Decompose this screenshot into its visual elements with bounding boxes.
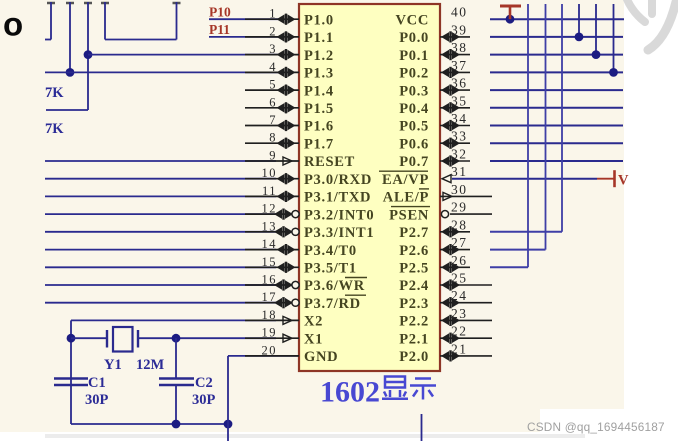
pin 28 bidirectional arrow (441, 226, 460, 237)
pin 16 stub (245, 284, 299, 286)
svg-text:4: 4 (269, 60, 277, 74)
svg-text:P2.0: P2.0 (399, 349, 429, 365)
junction on P1.2 net (84, 50, 93, 59)
svg-text:14: 14 (262, 237, 278, 251)
svg-text:7K: 7K (45, 85, 64, 101)
svg-text:3: 3 (269, 42, 277, 56)
pin 10 stub (245, 178, 299, 180)
pin 17 inversion circle (292, 299, 299, 306)
svg-text:P2.3: P2.3 (399, 296, 429, 312)
svg-text:P3.4/T0: P3.4/T0 (304, 243, 357, 259)
pin 32 stub (440, 160, 470, 162)
pin 27 bidirectional arrow (441, 244, 460, 255)
chip caption hanzi 显 (382, 377, 408, 399)
wire: P0.7 bus horizontal (490, 160, 623, 162)
junction P0.0 (575, 33, 584, 42)
svg-text:39: 39 (451, 22, 468, 37)
wire: P0.2 bus horizontal (490, 71, 623, 73)
wire: bus to pin 11 (P3.1) (45, 195, 276, 197)
pin 29 stub (450, 213, 492, 215)
svg-text:C2: C2 (195, 375, 213, 391)
pin 6 stub (245, 107, 299, 109)
wire: P0.4 bus horizontal (490, 107, 623, 109)
pin 1 bidirectional arrow (277, 14, 296, 25)
pin 39 stub (440, 36, 470, 38)
wire: P0.0 bus horizontal (490, 36, 623, 38)
svg-text:23: 23 (451, 306, 468, 321)
svg-text:11: 11 (262, 184, 277, 198)
pin 19 input arrow (283, 334, 292, 342)
svg-text:9: 9 (269, 149, 277, 163)
wire: VCC rail horizontal (490, 18, 624, 20)
svg-text:40: 40 (451, 5, 468, 20)
wire: P2.5 horizontal (490, 266, 528, 268)
junction C2-rail (172, 420, 181, 429)
wire: bus to pin 17 (P3.7) (45, 302, 276, 304)
overline P of ALE/P (419, 188, 429, 190)
svg-text:P1.4: P1.4 (304, 83, 334, 99)
pin 13 inversion circle (292, 228, 299, 235)
pin 15 bidirectional arrow (277, 262, 296, 273)
overline PSEN (391, 206, 430, 208)
pin 13 stub (245, 231, 299, 233)
svg-text:29: 29 (451, 200, 468, 215)
pin 14 stub (245, 249, 299, 251)
svg-text:P2.1: P2.1 (399, 331, 429, 347)
pin 18 stub (245, 319, 299, 321)
pin 2 stub (245, 36, 299, 38)
svg-text:P3.1/TXD: P3.1/TXD (304, 190, 371, 206)
wire: X2 net horizontal (71, 319, 276, 321)
wire: P2.6 horizontal (490, 249, 546, 251)
svg-text:VCC: VCC (395, 12, 429, 28)
pin 8 stub (245, 142, 299, 144)
wire: bus to pin 14 (P3.4) (45, 249, 276, 251)
pin 18 input arrow (283, 316, 292, 324)
svg-text:6: 6 (269, 95, 277, 109)
svg-text:30P: 30P (192, 392, 216, 408)
wire: stub corner to left (45, 39, 51, 41)
pin 16 inversion circle (292, 281, 299, 288)
pin 20 stub (245, 355, 299, 357)
pin 17 stub (245, 302, 299, 304)
wire: P2.5 vertical (527, 4, 529, 267)
pin 5 stub (245, 89, 299, 91)
svg-text:8: 8 (269, 131, 277, 145)
pin 13 bidirectional arrow (274, 226, 293, 237)
wire: P2.7 vertical (561, 4, 563, 232)
pin 9 stub (245, 160, 299, 162)
capacitor C2 (159, 379, 194, 386)
svg-text:17: 17 (262, 290, 278, 304)
pin 23 bidirectional arrow (441, 315, 460, 326)
junction C2 branch (172, 334, 181, 343)
svg-text:21: 21 (451, 341, 468, 356)
pin 6 bidirectional arrow (277, 102, 296, 113)
svg-text:V: V (618, 173, 629, 189)
svg-text:P0.6: P0.6 (399, 136, 429, 152)
wire: bottom leg to 7K resistor (46, 109, 88, 111)
wire: pull-up net to pin 4 (P1.3) (45, 71, 282, 73)
svg-text:31: 31 (451, 164, 468, 179)
pin 7 stub (245, 125, 299, 127)
svg-text:P3.6/WR: P3.6/WR (304, 278, 365, 294)
svg-text:PSEN: PSEN (389, 207, 429, 223)
svg-text:30: 30 (451, 182, 468, 197)
pin 1 stub (245, 18, 299, 20)
pin 29 inversion circle (441, 211, 448, 218)
pin 26 bidirectional arrow (441, 262, 460, 273)
pin 33 stub (440, 142, 470, 144)
pin 11 stub (245, 195, 299, 197)
pin 38 stub (440, 54, 470, 56)
wire: U left leg (104, 2, 106, 40)
pin 35 stub (440, 107, 470, 109)
pin 8 bidirectional arrow (277, 138, 296, 149)
svg-text:P1.0: P1.0 (304, 12, 334, 28)
pin 24 stub (440, 302, 492, 304)
svg-text:28: 28 (451, 217, 468, 232)
svg-text:36: 36 (451, 76, 468, 91)
wire: pull-up net to pin 3 (P1.2) (88, 54, 282, 56)
wire: bus to pin 15 (P3.5) (45, 266, 276, 268)
pin 22 bidirectional arrow (441, 333, 460, 344)
pin 38 bidirectional arrow (441, 49, 460, 60)
wire: P2.6 vertical (545, 4, 547, 250)
pin 31 input arrow (442, 175, 451, 183)
svg-text:P0.5: P0.5 (399, 119, 429, 135)
svg-text:P2.5: P2.5 (399, 261, 429, 277)
watermark stroke 2 (648, 0, 656, 14)
wire: X2 net vertical / C1 branch (70, 320, 72, 424)
svg-text:EA/VP: EA/VP (382, 172, 429, 188)
pin 25 bidirectional arrow (441, 279, 460, 290)
svg-text:P3.0/RXD: P3.0/RXD (304, 172, 372, 188)
wire: rail continues down (227, 424, 229, 441)
wire: net P10 to pin 1 (209, 18, 282, 20)
pin 17 bidirectional arrow (274, 297, 293, 308)
wire: ground rail (71, 423, 228, 425)
overline RD (pin17 label) (345, 294, 366, 296)
wire: vertical bus to P0.2 (613, 4, 615, 72)
svg-text:30P: 30P (85, 392, 109, 408)
pin 37 stub (440, 71, 470, 73)
pin 9 input arrow (283, 157, 292, 165)
pin 5 bidirectional arrow (277, 85, 296, 96)
svg-text:P3.2/INT0: P3.2/INT0 (304, 207, 374, 223)
pin 15 stub (245, 266, 299, 268)
pin 39 bidirectional arrow (441, 31, 460, 42)
pin 32 bidirectional arrow (441, 155, 460, 166)
resistor stub tick 1 (47, 2, 55, 5)
pin 28 stub (440, 231, 470, 233)
svg-text:1602: 1602 (320, 376, 380, 409)
pin 21 bidirectional arrow (441, 350, 460, 361)
pin 14 bidirectional arrow (277, 244, 296, 255)
pin 33 bidirectional arrow (441, 138, 460, 149)
svg-text:10: 10 (262, 166, 278, 180)
svg-text:32: 32 (451, 147, 468, 162)
pin 35 bidirectional arrow (441, 102, 460, 113)
svg-text:P2.4: P2.4 (399, 278, 429, 294)
junction VCC (506, 15, 515, 24)
pin 24 bidirectional arrow (441, 297, 460, 308)
pin 12 inversion circle (292, 211, 299, 218)
watermark stroke 1 (626, 0, 645, 22)
junction P0.1 (592, 50, 601, 59)
pin 4 bidirectional arrow (277, 67, 296, 78)
overline EA/VP (379, 170, 428, 172)
svg-text:P2.7: P2.7 (399, 225, 429, 241)
svg-text:18: 18 (262, 308, 278, 322)
pin 23 stub (440, 319, 492, 321)
wire: bus to pin 16 (P3.6) (45, 284, 276, 286)
svg-text:P2.6: P2.6 (399, 243, 429, 259)
svg-text:X2: X2 (304, 314, 323, 330)
pin 30 output arrow (443, 192, 452, 200)
resistor stub tick 3 (84, 2, 92, 5)
wire: EA pin horizontal (452, 178, 597, 180)
svg-text:25: 25 (451, 271, 468, 286)
svg-text:o: o (3, 6, 23, 43)
svg-text:P1.1: P1.1 (304, 30, 334, 46)
power tie on EA (red) (597, 170, 615, 187)
svg-text:22: 22 (451, 324, 468, 339)
svg-text:X1: X1 (304, 331, 323, 347)
svg-text:2: 2 (269, 24, 277, 38)
svg-text:P0.2: P0.2 (399, 66, 429, 82)
wire: C2 top lead (175, 338, 177, 378)
svg-text:P3.7/RD: P3.7/RD (304, 296, 361, 312)
pin 16 bidirectional arrow (274, 279, 293, 290)
wire: U bottom (105, 39, 177, 41)
U1 right pin name labels (382, 12, 429, 365)
power symbol VCC (red T) (500, 6, 521, 19)
svg-text:15: 15 (262, 255, 278, 269)
chip caption hanzi 示 (410, 379, 436, 400)
wire: P0.3 bus horizontal (490, 89, 623, 91)
overline WR (pin16 label) (345, 277, 367, 279)
wire: vertical to P1.3 net (69, 2, 71, 72)
pin 26 stub (440, 266, 470, 268)
svg-text:P0.0: P0.0 (399, 30, 429, 46)
wire: P0.5 bus horizontal (490, 125, 623, 127)
resistor stub tick 4 (101, 2, 109, 5)
wire: vertical bus to P0.0 (578, 4, 580, 37)
wire: bus to pin 12 (P3.2) (45, 213, 276, 215)
svg-text:P1.5: P1.5 (304, 101, 334, 117)
svg-text:ALE/P: ALE/P (383, 190, 429, 206)
pin 34 bidirectional arrow (441, 120, 460, 131)
svg-text:Y1: Y1 (104, 357, 122, 373)
svg-text:26: 26 (451, 253, 468, 268)
svg-text:P2.2: P2.2 (399, 314, 429, 330)
wire: bus to pin 13 (P3.3) (45, 231, 276, 233)
junction GND-rail (224, 420, 233, 429)
junction crystal left (67, 334, 76, 343)
pin 12 stub (245, 213, 299, 215)
svg-text:P1.6: P1.6 (304, 119, 334, 135)
wire: vertical through P1.2 net (87, 2, 89, 110)
pin 36 stub (440, 89, 470, 91)
pin 36 bidirectional arrow (441, 85, 460, 96)
svg-text:P0.3: P0.3 (399, 83, 429, 99)
crystal Y1 (107, 327, 138, 352)
pin 4 stub (245, 71, 299, 73)
svg-text:P3.5/T1: P3.5/T1 (304, 261, 357, 277)
resistor stub tick 5 (173, 2, 181, 5)
svg-text:27: 27 (451, 235, 468, 250)
svg-text:20: 20 (262, 343, 278, 357)
svg-text:P1.3: P1.3 (304, 66, 334, 82)
svg-text:GND: GND (304, 349, 338, 365)
pin 37 bidirectional arrow (441, 67, 460, 78)
wire: U right leg (176, 2, 178, 40)
capacitor C1 (54, 379, 88, 386)
svg-text:P1.7: P1.7 (304, 136, 334, 152)
op-amp U1: 8051 MCU body (299, 4, 440, 371)
wire: GND pin vertical (227, 356, 229, 424)
wire: C2 bottom lead (175, 385, 177, 424)
wire: bus to pin 10 (P3.0) (45, 178, 276, 180)
bottom gray bar (45, 434, 585, 438)
svg-text:CSDN @qq_1694456187: CSDN @qq_1694456187 (527, 420, 665, 434)
pin 7 bidirectional arrow (277, 120, 296, 131)
svg-text:5: 5 (269, 78, 277, 92)
svg-text:P3.3/INT1: P3.3/INT1 (304, 225, 374, 241)
svg-text:7K: 7K (45, 121, 64, 137)
svg-text:16: 16 (262, 273, 278, 287)
wire: P2.7 horizontal (490, 231, 562, 233)
pin 21 stub (440, 355, 492, 357)
svg-text:P1.2: P1.2 (304, 48, 334, 64)
U1 left pin name labels (304, 12, 374, 365)
svg-text:12: 12 (262, 202, 278, 216)
wire: crystal right lead to X1 (138, 337, 276, 339)
pin 27 stub (440, 249, 470, 251)
pin 10 bidirectional arrow (277, 173, 296, 184)
svg-text:35: 35 (451, 93, 468, 108)
pin 3 bidirectional arrow (277, 49, 296, 60)
svg-text:37: 37 (451, 58, 468, 73)
watermark stroke 3 (648, 2, 676, 50)
wire: vertical bus to P0.1 (595, 4, 597, 55)
svg-text:1: 1 (269, 7, 277, 21)
pin 11 bidirectional arrow (277, 191, 296, 202)
pin 3 stub (245, 54, 299, 56)
svg-text:P10: P10 (209, 5, 231, 20)
wire: P0.6 bus horizontal (490, 142, 623, 144)
svg-text:P0.7: P0.7 (399, 154, 429, 170)
svg-text:P0.4: P0.4 (399, 101, 429, 117)
pin 22 stub (440, 337, 492, 339)
pin 30 stub (440, 195, 492, 197)
svg-text:34: 34 (451, 111, 468, 126)
svg-text:P0.1: P0.1 (399, 48, 429, 64)
wire: bus to pin 9 (RESET) (45, 160, 276, 162)
wire: stub below chip (421, 414, 423, 441)
junction P0.2 (609, 68, 618, 77)
wire: vertical stub x=51 (50, 2, 52, 40)
wire: net P11 to pin 2 (209, 36, 282, 38)
svg-text:RESET: RESET (304, 154, 355, 170)
wire: crystal left lead (71, 337, 106, 339)
pin 25 stub (440, 284, 492, 286)
svg-text:12M: 12M (136, 357, 165, 373)
resistor stub tick 2 (66, 2, 74, 5)
svg-text:7: 7 (269, 113, 277, 127)
wire: GND pin 20 horizontal (228, 355, 299, 357)
pin 12 bidirectional arrow (274, 209, 293, 220)
svg-text:19: 19 (262, 326, 278, 340)
svg-text:P11: P11 (209, 22, 230, 37)
wire: P0.1 bus horizontal (490, 54, 623, 56)
svg-text:38: 38 (451, 40, 468, 55)
svg-text:C1: C1 (88, 375, 106, 391)
svg-text:13: 13 (262, 219, 278, 233)
svg-text:33: 33 (451, 129, 468, 144)
pin 19 stub (245, 337, 299, 339)
pin 2 bidirectional arrow (277, 31, 296, 42)
svg-text:24: 24 (451, 288, 468, 303)
pin 34 stub (440, 125, 470, 127)
junction on P1.3 net (66, 68, 75, 77)
